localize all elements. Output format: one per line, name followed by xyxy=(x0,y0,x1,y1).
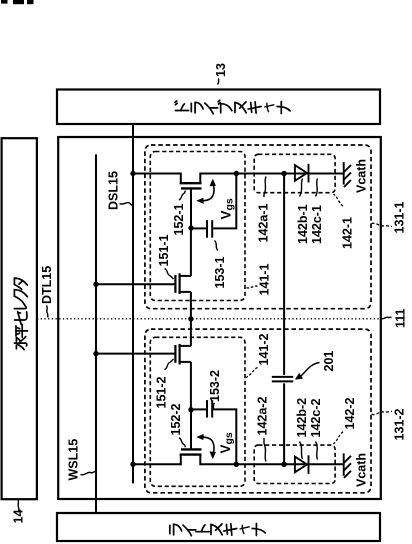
label 142a-2 xyxy=(256,397,270,462)
wire: write scan line WSL15 xyxy=(95,154,97,513)
svg-text:14: 14 xyxy=(12,510,26,524)
label 131-2 xyxy=(372,408,407,440)
svg-text:142b-2: 142b-2 xyxy=(295,398,309,438)
node: gate node dot pixel2 xyxy=(188,407,193,412)
text 水平セレクタ in selector box xyxy=(14,278,27,350)
svg-text:13: 13 xyxy=(214,63,228,77)
pixel box 131-1 (dashed) xyxy=(145,145,371,309)
wire: pixel1 power rail from DSL15 xyxy=(133,173,181,175)
svg-text:142c-2: 142c-2 xyxy=(309,399,323,438)
transistor 151-1 (sampling) xyxy=(175,228,191,319)
svg-text:WSL15: WSL15 xyxy=(67,439,81,481)
label 142-1 xyxy=(334,194,355,249)
wire: source drop to storage cap pixel2 xyxy=(213,409,236,464)
wire: pixel2 power rail from DSL15 xyxy=(133,463,181,465)
svg-text:142-2: 142-2 xyxy=(343,397,357,429)
node: anode junction pixel1 xyxy=(281,171,286,176)
label 141-2 xyxy=(246,333,271,377)
wire: rail from 152-2 to Vcath pixel2 xyxy=(200,463,342,465)
label Vgs + arrows xyxy=(197,179,236,219)
node: source node junction xyxy=(234,171,239,176)
text ドライブスキャナ in drive scanner box xyxy=(175,100,290,113)
node: WSL15 junction pixel1 xyxy=(93,282,98,287)
svg-text:Vcath: Vcath xyxy=(355,453,369,487)
circuit box 141-2 (dashed) xyxy=(150,337,245,486)
svg-text:151-2: 151-2 xyxy=(155,376,169,408)
capacitor 153-1 (storage) xyxy=(207,220,212,238)
transistor 152-1 (drive) xyxy=(180,173,202,229)
node: gate node dot xyxy=(188,225,193,230)
node: DSL15 junction pixel1 xyxy=(130,171,135,176)
label WSL15 xyxy=(67,439,96,481)
diode OLED pixel1 xyxy=(295,164,309,183)
ground Vcath pixel1 xyxy=(344,162,351,187)
label 201 + arrow xyxy=(295,351,336,380)
wire: WSL15 gate feed pixel2 xyxy=(96,353,175,355)
svg-text:DTL15: DTL15 xyxy=(40,266,54,304)
label 142b-2 xyxy=(295,398,309,459)
label 142-2 xyxy=(334,397,358,443)
wire: drive scan line DSL15 xyxy=(132,124,134,484)
label DSL15 xyxy=(107,171,133,210)
wire: cap 201 to pixel2 anode xyxy=(283,383,285,464)
ground Vcath pixel2 xyxy=(344,453,351,478)
svg-text:141-2: 141-2 xyxy=(257,333,271,365)
wire: rail from 152-1 to Vcath xyxy=(200,173,342,175)
wire: gate node to cap pixel2 xyxy=(191,408,206,410)
svg-text:141-1: 141-1 xyxy=(258,263,272,295)
label 111 xyxy=(382,308,408,328)
svg-text:152-1: 152-1 xyxy=(172,203,186,235)
svg-text:131-2: 131-2 xyxy=(393,408,407,440)
node: DSL15 junction pixel2 xyxy=(130,462,135,467)
label 153-1 xyxy=(213,241,227,289)
pixel box 131-2 (dashed) xyxy=(145,329,371,493)
svg-text:DSL15: DSL15 xyxy=(107,171,121,210)
label 142a-1 xyxy=(257,177,271,243)
svg-text:111: 111 xyxy=(394,308,408,328)
wire: source drop to storage cap xyxy=(213,174,236,229)
OLED group box 142-2 (dashed) xyxy=(254,445,335,483)
label 152-1 xyxy=(172,191,186,236)
label 151-2 xyxy=(155,359,174,409)
svg-text:142a-1: 142a-1 xyxy=(257,204,271,243)
node: WSL15 junction pixel2 xyxy=(93,351,98,356)
svg-text:152-2: 152-2 xyxy=(169,403,183,435)
svg-text:153-2: 153-2 xyxy=(208,370,222,402)
text ライトスキャナ in write scanner box xyxy=(170,524,265,536)
OLED group box 142-1 (dashed) xyxy=(254,154,335,192)
label Vgs + arrows pixel2 xyxy=(197,432,235,459)
label 142c-2 xyxy=(309,399,323,460)
label 152-2 xyxy=(169,403,186,447)
wire: data line DTL15 (dotted) xyxy=(37,318,381,320)
capacitor 201 (coupling) xyxy=(272,377,293,382)
wire: anode link line to cap 201 xyxy=(283,174,285,375)
diode OLED pixel2 xyxy=(295,455,309,474)
box: pixel array 111 xyxy=(58,137,381,499)
box: horizontal selector 14 (水平セレクタ) xyxy=(2,138,37,499)
label 153-2 xyxy=(208,370,222,410)
svg-text:142b-1: 142b-1 xyxy=(296,204,310,244)
capacitor 153-2 (storage) xyxy=(207,400,212,418)
svg-text:151-1: 151-1 xyxy=(157,234,171,266)
svg-text:153-1: 153-1 xyxy=(213,256,227,288)
label 142c-1 xyxy=(310,179,324,245)
node: source node junction pixel2 xyxy=(234,462,239,467)
svg-text:142c-1: 142c-1 xyxy=(310,205,324,244)
wire: gate node to cap xyxy=(191,227,206,229)
label 131-1 xyxy=(372,201,407,233)
label DTL15 xyxy=(40,266,54,318)
svg-text:142-1: 142-1 xyxy=(341,217,355,249)
circuit box 141-1 (dashed) xyxy=(150,152,245,301)
wire: WSL15 gate feed pixel1 xyxy=(96,283,175,285)
clipped figure label "図4" at top-left xyxy=(1,0,34,4)
label 141-1 xyxy=(246,263,272,295)
svg-text:142a-2: 142a-2 xyxy=(256,397,270,436)
svg-text:131-1: 131-1 xyxy=(393,201,407,233)
label 151-1 xyxy=(157,234,174,279)
box: drive scanner 13 (ドライブスキャナ) xyxy=(57,90,380,125)
label 13 xyxy=(214,63,228,84)
svg-text:201: 201 xyxy=(322,351,336,372)
box: write scanner (ライトスキャナ) xyxy=(57,513,380,541)
transistor 152-2 (drive) xyxy=(180,410,202,466)
label 14 xyxy=(12,500,26,524)
node: DTL15 junction xyxy=(188,316,193,321)
node: anode junction pixel2 xyxy=(281,462,286,467)
label 142b-1 xyxy=(296,179,310,245)
transistor 151-2 (sampling) xyxy=(175,319,191,410)
svg-text:Vcath: Vcath xyxy=(355,159,369,193)
